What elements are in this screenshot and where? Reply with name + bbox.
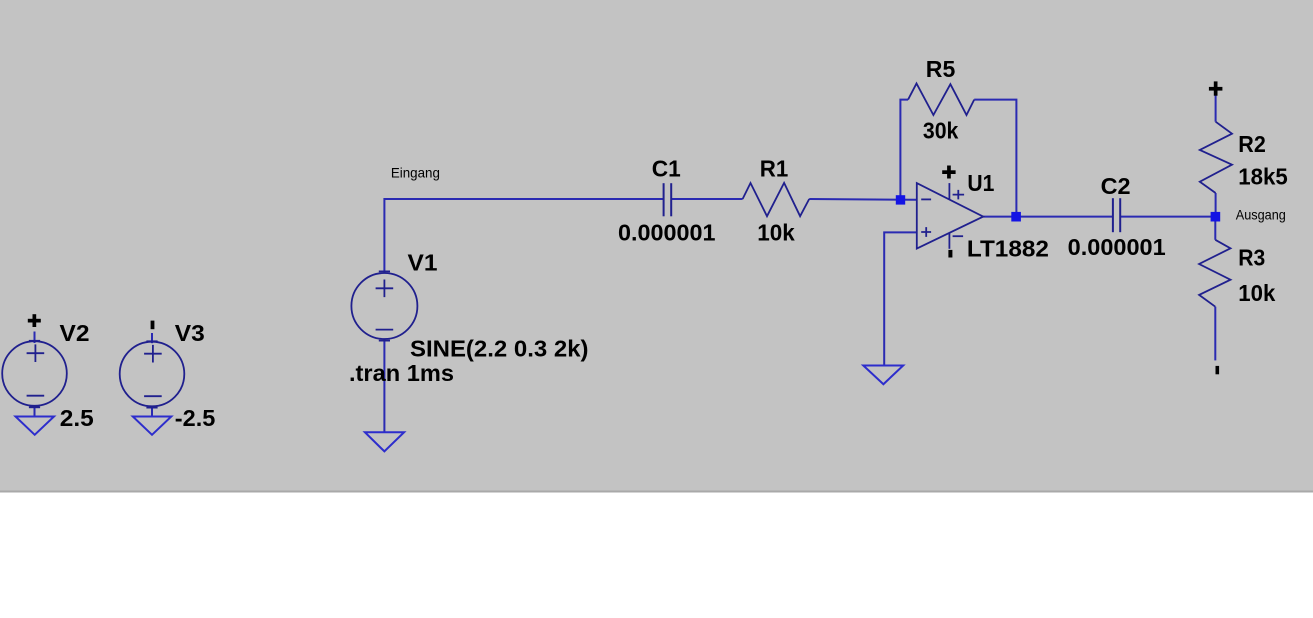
ground under V1 xyxy=(365,432,404,451)
wire V2 top stub xyxy=(34,332,36,344)
net label + above V2 xyxy=(28,314,41,327)
svg-text:C2: C2 xyxy=(1101,173,1131,199)
wire R3 bottom stub xyxy=(1214,307,1216,361)
wire R5 left leg xyxy=(900,100,908,200)
svg-text:R3: R3 xyxy=(1238,244,1265,270)
wire C2 to Ausgang node xyxy=(1120,216,1215,218)
resistor R1 xyxy=(743,183,810,216)
wire R2 bottom to node xyxy=(1215,193,1217,217)
svg-text:30k: 30k xyxy=(923,118,959,144)
wire V3 bottom stub xyxy=(151,406,153,417)
resistor R2 xyxy=(1200,122,1232,193)
net label - below R3 xyxy=(1216,366,1220,374)
resistor R3 xyxy=(1199,240,1230,307)
svg-text:2.5: 2.5 xyxy=(60,405,94,431)
wire C1 to R1 xyxy=(671,198,742,200)
svg-text:18k5: 18k5 xyxy=(1238,163,1288,189)
ground under V3 xyxy=(133,417,172,435)
svg-text:LT1882: LT1882 xyxy=(967,236,1049,262)
svg-text:10k: 10k xyxy=(757,219,795,245)
svg-text:C1: C1 xyxy=(652,156,681,182)
svg-text:-2.5: -2.5 xyxy=(175,405,216,431)
wire op-amp non-inverting input to ground xyxy=(884,232,917,365)
wire V3 top stub xyxy=(151,333,153,343)
svg-text:0.000001: 0.000001 xyxy=(618,219,716,245)
svg-text:Ausgang: Ausgang xyxy=(1236,207,1286,223)
net label - above V3 xyxy=(151,321,155,330)
svg-text:SINE(2.2 0.3 2k): SINE(2.2 0.3 2k) xyxy=(410,335,589,361)
svg-text:10k: 10k xyxy=(1238,280,1275,306)
wire R2 top stub xyxy=(1215,95,1217,122)
junction node Ausgang xyxy=(1211,212,1221,222)
net label + above U1 xyxy=(942,166,955,179)
net label + above R2 xyxy=(1209,81,1223,95)
svg-text:V2: V2 xyxy=(60,320,90,346)
wire V1 bottom to ground xyxy=(383,339,385,432)
wire V2 bottom stub xyxy=(34,406,36,417)
capacitor C2 xyxy=(1113,198,1120,232)
voltage source V3 xyxy=(120,341,185,407)
svg-text:V3: V3 xyxy=(175,320,205,346)
svg-text:R5: R5 xyxy=(926,56,956,82)
op-amp U1 xyxy=(917,183,983,249)
junction node at op-amp input xyxy=(896,195,905,204)
ground under V2 xyxy=(16,417,55,435)
wire R1 to op-amp inverting input xyxy=(809,198,917,201)
net label - below U1 xyxy=(948,250,952,258)
voltage source V1 xyxy=(351,271,417,340)
wire node to R3 xyxy=(1214,217,1216,240)
wire op-amp output to C2 xyxy=(983,216,1113,218)
svg-text:Eingang: Eingang xyxy=(391,165,440,181)
svg-text:.tran 1ms: .tran 1ms xyxy=(349,360,454,386)
voltage source V2 xyxy=(2,341,67,408)
resistor R5 xyxy=(908,83,974,115)
svg-text:R2: R2 xyxy=(1238,131,1266,157)
svg-text:V1: V1 xyxy=(408,250,438,276)
wire Eingang net: V1 top to C1 xyxy=(384,199,663,273)
wire R5 right leg to output xyxy=(974,100,1016,217)
svg-text:R1: R1 xyxy=(760,155,789,181)
junction node at op-amp output xyxy=(1011,212,1021,222)
ground below op-amp xyxy=(863,366,903,385)
schematic gray background xyxy=(0,0,1313,493)
svg-text:U1: U1 xyxy=(967,170,994,196)
capacitor C1 xyxy=(664,183,672,216)
svg-text:0.000001: 0.000001 xyxy=(1068,234,1166,260)
